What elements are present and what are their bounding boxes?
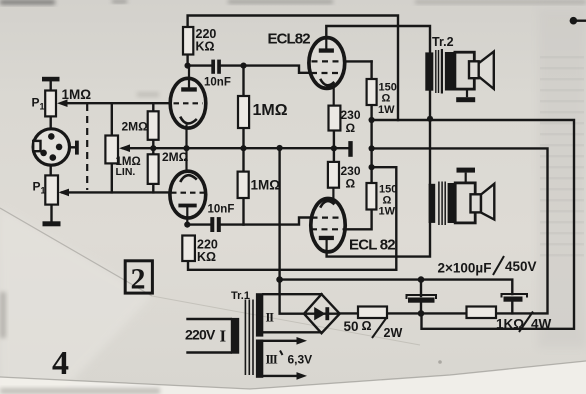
svg-text:4: 4: [52, 345, 69, 382]
svg-text:2W: 2W: [384, 326, 403, 340]
svg-text:Ω: Ω: [346, 121, 356, 135]
svg-text:1MΩ: 1MΩ: [253, 102, 288, 119]
svg-text:2: 2: [131, 263, 146, 296]
svg-text:LIN.: LIN.: [116, 166, 136, 178]
svg-text:P: P: [33, 180, 41, 194]
svg-text:1MΩ: 1MΩ: [62, 87, 92, 102]
svg-text:2×100µF: 2×100µF: [438, 261, 492, 276]
svg-text:III: III: [266, 353, 278, 367]
svg-text:2MΩ: 2MΩ: [122, 120, 149, 134]
svg-text:6,3V: 6,3V: [288, 353, 313, 367]
svg-text:10nF: 10nF: [204, 77, 231, 89]
svg-text:230: 230: [341, 108, 361, 122]
svg-text:KΩ: KΩ: [196, 40, 215, 54]
svg-text:220V: 220V: [185, 327, 216, 343]
svg-text:ECL 82: ECL 82: [349, 237, 395, 254]
svg-text:1MΩ: 1MΩ: [251, 178, 281, 193]
svg-text:2MΩ: 2MΩ: [162, 150, 189, 164]
svg-text:Ω: Ω: [346, 177, 356, 191]
svg-text:450V: 450V: [505, 259, 537, 274]
svg-text:ECL82: ECL82: [268, 31, 311, 48]
svg-text:Tr.2: Tr.2: [432, 35, 454, 49]
svg-text:Ω: Ω: [382, 93, 391, 105]
svg-text:1: 1: [41, 186, 46, 196]
svg-text:I: I: [220, 327, 227, 346]
svg-text:KΩ: KΩ: [197, 250, 216, 264]
svg-text:10nF: 10nF: [208, 204, 235, 216]
svg-text:1W: 1W: [379, 206, 396, 218]
svg-text:P: P: [32, 96, 40, 110]
svg-text:Ω: Ω: [362, 319, 372, 333]
svg-text:1W: 1W: [378, 104, 395, 116]
svg-text:4W: 4W: [531, 317, 552, 332]
svg-text:50: 50: [344, 319, 359, 334]
svg-text:1: 1: [40, 102, 45, 112]
svg-text:Tr.1: Tr.1: [231, 290, 250, 302]
